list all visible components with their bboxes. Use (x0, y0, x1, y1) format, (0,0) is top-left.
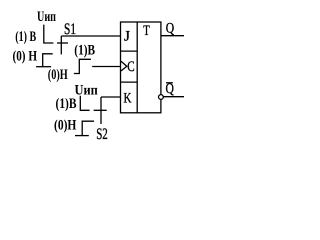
flip-flop divider J/C (121, 50, 138, 52)
edge icon clock rising step (74, 59, 91, 73)
wire supply S1: vertical from Uип down, corner right (44, 25, 54, 43)
dynamic clock input triangle (121, 61, 127, 71)
svg-text:Uип: Uип (37, 9, 56, 25)
svg-text:(1)В: (1)В (74, 43, 95, 59)
node level icon (0)H bottom: base bar (75, 135, 89, 137)
wire Q output (161, 35, 184, 37)
node level icon (0)H bottom: high bar (82, 121, 94, 135)
svg-text:(0)Н: (0)Н (48, 67, 68, 83)
svg-text:S1: S1 (64, 21, 76, 38)
svg-text:C: C (127, 59, 134, 75)
wire J input (61, 35, 120, 37)
node level icon (0)H top: high bar (43, 54, 53, 67)
svg-text:(0) Н: (0) Н (13, 48, 38, 64)
wire supply S2: vertical from Uип down, corner right (80, 96, 89, 111)
overline of Q-bar label (166, 82, 173, 84)
svg-text:(0)Н: (0)Н (54, 118, 77, 134)
svg-text:(1)В: (1)В (56, 96, 77, 112)
node level icon (0)H top: base bar (36, 66, 51, 68)
svg-text:S2: S2 (96, 126, 108, 143)
svg-text:T: T (143, 23, 150, 39)
switch S1 fixed contact bar (57, 42, 68, 44)
wire K input (101, 96, 121, 98)
svg-text:Q: Q (166, 81, 175, 97)
svg-text:K: K (124, 91, 132, 107)
svg-text:Q: Q (166, 21, 175, 37)
flip-flop U1 box outline (121, 22, 161, 113)
wire Q-bar output (163, 96, 184, 98)
svg-text:(1) В: (1) В (15, 29, 36, 45)
flip-flop divider C/K (121, 81, 138, 83)
switch S2 blade (100, 97, 102, 124)
switch S1 blade (60, 36, 62, 54)
inverter circle at Q-bar (159, 95, 164, 100)
flip-flop divider main (136, 22, 138, 113)
svg-text:J: J (124, 29, 130, 45)
svg-text:Uип: Uип (75, 83, 98, 99)
switch S2 fixed contact bar (94, 109, 107, 111)
wire C input (92, 66, 120, 68)
